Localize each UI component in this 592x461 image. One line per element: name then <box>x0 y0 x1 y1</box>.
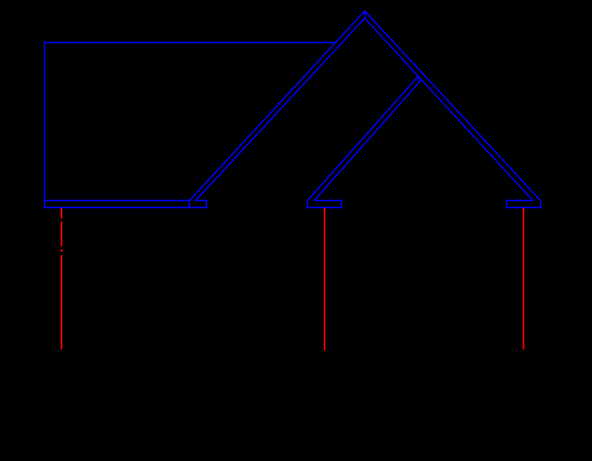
left seat right edge <box>206 201 208 208</box>
left rafter outer line <box>190 11 365 201</box>
left centerline dash 2 <box>61 222 63 247</box>
right plate top edge <box>507 200 533 202</box>
left plate joint vertical <box>189 201 191 208</box>
left seat top edge <box>196 200 207 202</box>
right plate right edge <box>540 201 542 208</box>
right rafter outer line <box>365 11 541 201</box>
left plate top line <box>45 200 190 202</box>
left centerline long segment <box>61 255 63 349</box>
middle plate right edge <box>341 201 343 208</box>
middle plate top edge <box>314 200 341 202</box>
left rafter inner line <box>196 18 365 200</box>
left centerline short dash <box>61 249 63 252</box>
right plate left edge <box>506 201 508 208</box>
middle gable rafter inner line <box>314 80 421 201</box>
right rafter inner line <box>365 18 533 200</box>
left centerline dash 1 <box>61 208 63 218</box>
middle plate bottom edge <box>308 207 342 209</box>
wall rectangle left edge <box>44 43 46 208</box>
right plate bottom edge <box>507 207 541 209</box>
wall rectangle top edge <box>45 42 336 44</box>
middle gable rafter outer line <box>308 76 419 200</box>
valley junction vertical <box>417 76 419 80</box>
middle plate left edge <box>307 201 309 208</box>
ridge vertical at apex <box>364 11 366 18</box>
left plate bottom line <box>45 207 207 209</box>
right centerline <box>523 208 525 350</box>
middle centerline <box>324 208 326 351</box>
